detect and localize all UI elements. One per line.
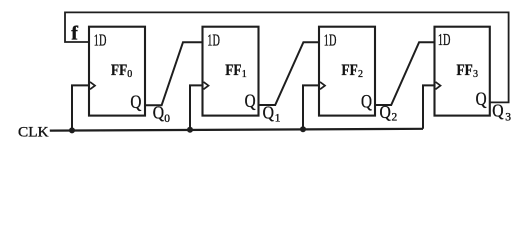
svg-text:1D: 1D xyxy=(207,31,220,50)
svg-text:Q: Q xyxy=(130,93,142,113)
svg-text:1D: 1D xyxy=(324,31,337,50)
svg-text:Q: Q xyxy=(361,92,373,112)
svg-text:FF: FF xyxy=(225,60,241,79)
svg-text:1D: 1D xyxy=(438,30,451,49)
svg-text:3: 3 xyxy=(473,69,478,80)
svg-text:Q: Q xyxy=(245,92,257,112)
svg-text:1: 1 xyxy=(275,112,281,124)
svg-text:f: f xyxy=(71,23,78,45)
svg-text:0: 0 xyxy=(127,69,132,80)
svg-text:Q: Q xyxy=(263,103,275,123)
svg-text:FF: FF xyxy=(342,60,358,79)
svg-text:Q: Q xyxy=(492,100,504,120)
svg-text:1: 1 xyxy=(242,69,247,80)
svg-text:Q: Q xyxy=(380,102,392,122)
svg-text:FF: FF xyxy=(457,60,473,79)
svg-text:2: 2 xyxy=(358,69,363,80)
svg-text:0: 0 xyxy=(164,113,170,125)
svg-text:1D: 1D xyxy=(94,31,107,50)
svg-text:Q: Q xyxy=(153,102,165,122)
svg-text:FF: FF xyxy=(111,60,127,79)
svg-text:Q: Q xyxy=(476,90,488,110)
svg-text:2: 2 xyxy=(392,112,398,124)
svg-text:3: 3 xyxy=(505,111,511,123)
svg-text:CLK: CLK xyxy=(18,124,49,140)
